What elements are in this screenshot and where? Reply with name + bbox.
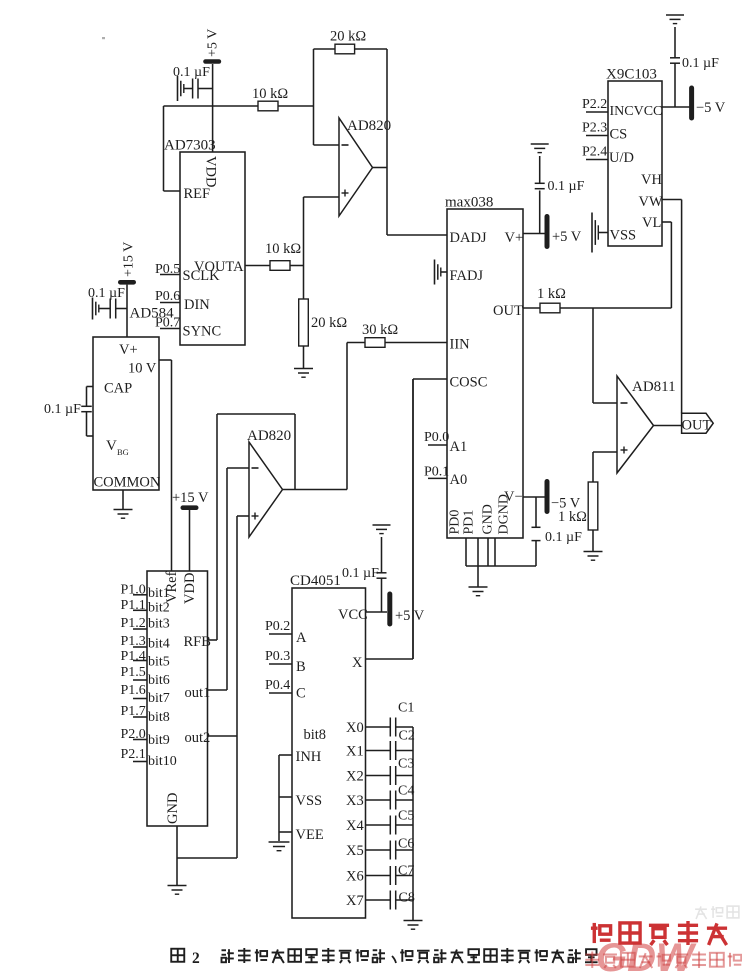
- svg-text:+5 V: +5 V: [395, 608, 425, 624]
- svg-text:AD7303: AD7303: [164, 138, 216, 154]
- svg-text:C3: C3: [398, 757, 414, 772]
- svg-text:DIN: DIN: [184, 297, 210, 313]
- svg-text:+15 V: +15 V: [172, 490, 209, 506]
- svg-text:VDD: VDD: [182, 573, 198, 604]
- svg-text:CD4051: CD4051: [290, 573, 341, 589]
- svg-text:C5: C5: [398, 809, 414, 824]
- svg-text:C7: C7: [398, 864, 414, 879]
- svg-text:P2.2: P2.2: [582, 97, 607, 112]
- svg-text:bit6: bit6: [148, 673, 170, 688]
- svg-text:0.1 µF: 0.1 µF: [173, 65, 210, 80]
- svg-text:out2: out2: [185, 730, 211, 746]
- svg-text:SCLK: SCLK: [183, 268, 221, 284]
- svg-text:30 kΩ: 30 kΩ: [362, 322, 398, 338]
- svg-text:RFB: RFB: [184, 634, 211, 650]
- svg-text:P2.4: P2.4: [582, 145, 607, 160]
- svg-text:OUT: OUT: [493, 303, 523, 319]
- svg-text:VCC: VCC: [338, 607, 368, 623]
- svg-text:COSC: COSC: [450, 375, 488, 391]
- svg-text:bit7: bit7: [148, 691, 170, 706]
- svg-text:P0.2: P0.2: [265, 619, 290, 634]
- svg-text:A1: A1: [450, 439, 468, 455]
- svg-text:P0.3: P0.3: [265, 649, 290, 664]
- svg-text:bit9: bit9: [148, 733, 170, 748]
- svg-text:+5 V: +5 V: [206, 29, 221, 57]
- svg-text:20 kΩ: 20 kΩ: [330, 29, 366, 45]
- svg-text:C6: C6: [398, 837, 414, 852]
- svg-text:VDD: VDD: [203, 156, 219, 187]
- svg-text:CS: CS: [610, 127, 628, 143]
- svg-text:AD820: AD820: [247, 428, 291, 444]
- svg-text:GND: GND: [481, 504, 496, 534]
- svg-text:VH: VH: [641, 172, 662, 188]
- svg-text:GND: GND: [165, 793, 181, 824]
- svg-text:C: C: [296, 686, 306, 702]
- svg-text:B: B: [296, 659, 306, 675]
- svg-text:P0.0: P0.0: [424, 430, 449, 445]
- svg-text:P1.6: P1.6: [121, 683, 146, 698]
- svg-text:bit5: bit5: [148, 655, 170, 670]
- svg-text:V: V: [106, 438, 117, 454]
- svg-text:C1: C1: [398, 701, 414, 716]
- svg-text:X0: X0: [346, 720, 364, 736]
- svg-text:bit1: bit1: [148, 586, 170, 601]
- svg-text:P1.4: P1.4: [121, 649, 146, 664]
- svg-text:+5 V: +5 V: [552, 229, 582, 245]
- svg-text:FADJ: FADJ: [450, 268, 484, 284]
- svg-text:C4: C4: [398, 784, 414, 799]
- svg-text:INH: INH: [296, 749, 322, 765]
- svg-text:V+: V+: [119, 342, 138, 358]
- svg-text:X6: X6: [346, 869, 364, 885]
- svg-text:VSS: VSS: [610, 228, 637, 244]
- svg-text:IIN: IIN: [450, 337, 471, 353]
- svg-text:A: A: [296, 630, 307, 646]
- svg-text:0.1 µF: 0.1 µF: [682, 56, 719, 71]
- svg-text:X3: X3: [346, 793, 364, 809]
- svg-text:A0: A0: [450, 472, 468, 488]
- svg-text:10 V: 10 V: [128, 361, 157, 377]
- svg-text:bit3: bit3: [148, 617, 170, 632]
- svg-text:V+: V+: [505, 230, 524, 246]
- svg-text:VEE: VEE: [296, 827, 324, 843]
- svg-text:P2.1: P2.1: [121, 747, 146, 762]
- svg-text:X1: X1: [346, 744, 364, 760]
- svg-text:U/D: U/D: [609, 150, 634, 166]
- svg-text:bit2: bit2: [148, 601, 170, 616]
- svg-text:P0.1: P0.1: [424, 464, 449, 479]
- svg-text:P1.5: P1.5: [121, 665, 146, 680]
- svg-text:10 kΩ: 10 kΩ: [252, 86, 288, 102]
- svg-text:0.1 µF: 0.1 µF: [548, 179, 585, 194]
- svg-text:DGND: DGND: [497, 494, 512, 534]
- svg-text:0.1 µF: 0.1 µF: [88, 286, 125, 301]
- svg-text:VSS: VSS: [296, 793, 323, 809]
- svg-text:X: X: [352, 655, 363, 671]
- svg-text:AD811: AD811: [632, 379, 676, 395]
- svg-text:X9C103: X9C103: [606, 67, 657, 83]
- svg-text:bit8: bit8: [148, 710, 170, 725]
- svg-text:2: 2: [192, 950, 200, 967]
- svg-text:0.1 µF: 0.1 µF: [342, 566, 379, 581]
- svg-text:0.1 µF: 0.1 µF: [545, 530, 582, 545]
- svg-text:AD820: AD820: [347, 118, 391, 134]
- svg-text:VW: VW: [639, 194, 663, 210]
- svg-text:SYNC: SYNC: [183, 324, 222, 340]
- svg-text:−5 V: −5 V: [696, 100, 726, 116]
- svg-text:X4: X4: [346, 818, 364, 834]
- svg-text:BG: BG: [117, 447, 129, 457]
- svg-text:OUT: OUT: [682, 418, 712, 434]
- svg-text:PD0: PD0: [448, 510, 463, 535]
- svg-text:PD1: PD1: [462, 510, 477, 535]
- svg-text:VL: VL: [642, 215, 661, 231]
- svg-text:max038: max038: [445, 195, 493, 211]
- svg-text:bit4: bit4: [148, 637, 170, 652]
- svg-text:1 kΩ: 1 kΩ: [558, 509, 587, 525]
- svg-text:CAP: CAP: [104, 381, 132, 397]
- svg-text:X7: X7: [346, 893, 364, 909]
- svg-text:20 kΩ: 20 kΩ: [311, 315, 347, 331]
- svg-text:COMMON: COMMON: [94, 475, 161, 491]
- svg-text:DADJ: DADJ: [450, 230, 487, 246]
- svg-text:P2.3: P2.3: [582, 121, 607, 136]
- svg-text:0.1 µF: 0.1 µF: [44, 402, 81, 417]
- svg-text:AD584: AD584: [130, 306, 175, 322]
- svg-text:1 kΩ: 1 kΩ: [537, 286, 566, 302]
- svg-text:P0.4: P0.4: [265, 678, 290, 693]
- svg-text:out1: out1: [185, 685, 211, 701]
- svg-text:INCVCC: INCVCC: [610, 104, 663, 119]
- svg-text:bit10: bit10: [148, 754, 177, 769]
- svg-text:+15 V: +15 V: [122, 242, 137, 277]
- svg-text:bit8: bit8: [304, 727, 327, 743]
- svg-text:REF: REF: [184, 186, 211, 202]
- svg-text:X5: X5: [346, 843, 364, 859]
- svg-text:10 kΩ: 10 kΩ: [265, 241, 301, 257]
- svg-text:X2: X2: [346, 769, 364, 785]
